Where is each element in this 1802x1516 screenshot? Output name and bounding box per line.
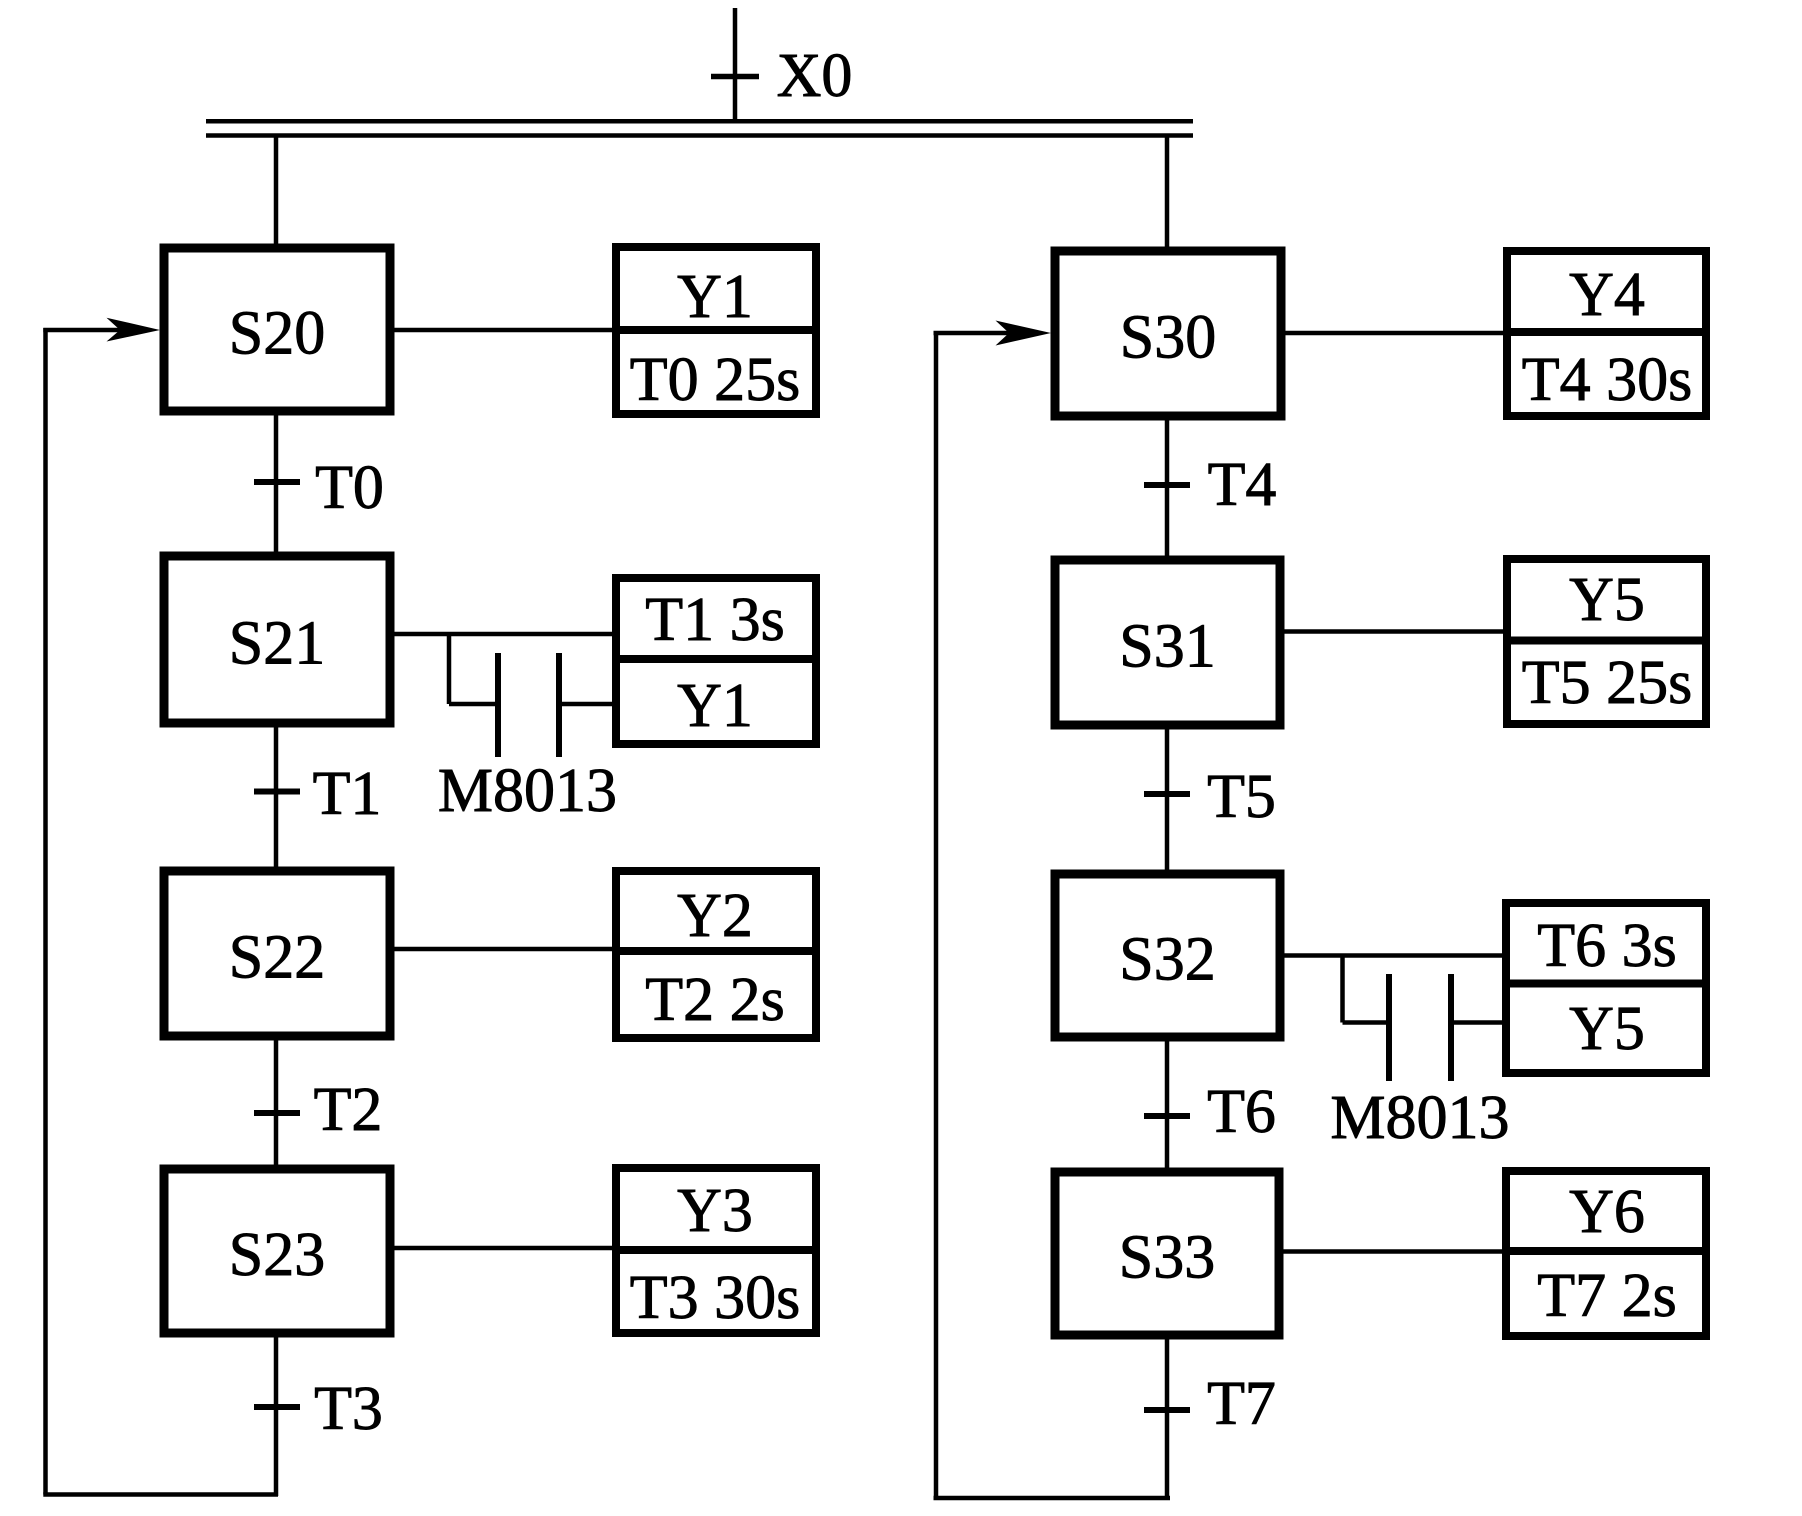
wire S31 to Y5 box (1284, 629, 1505, 634)
svg-text:T5: T5 (1207, 763, 1276, 831)
wire S30 to Y4 box (1285, 331, 1505, 336)
transition T5 (1144, 729, 1276, 870)
wire rail to S30 (1165, 137, 1170, 249)
svg-text:T4 30s: T4 30s (1522, 346, 1693, 414)
transition T2 (254, 1040, 382, 1165)
action box T6 3s / Y5 (1502, 903, 1710, 1073)
svg-text:M8013: M8013 (1330, 1084, 1509, 1152)
svg-text:T6 3s: T6 3s (1537, 912, 1677, 980)
svg-text:T3: T3 (314, 1375, 383, 1443)
svg-text:S22: S22 (229, 924, 325, 992)
power rail (double line) (206, 121, 1193, 135)
loop wire left (T3 back to S20) (43, 318, 278, 1495)
svg-text:S32: S32 (1119, 926, 1215, 994)
transition T1 (254, 727, 381, 867)
wire S23 to Y3 box (394, 1246, 614, 1251)
wire S22 to Y2 box (394, 947, 614, 952)
state box S22 (164, 871, 390, 1036)
loop wire right (T7 back to S30) (934, 321, 1171, 1499)
svg-text:S21: S21 (229, 610, 325, 678)
svg-text:Y5: Y5 (1569, 995, 1645, 1063)
transition T3 (254, 1337, 383, 1496)
wire S33 to Y6 box (1283, 1249, 1504, 1254)
svg-text:X0: X0 (777, 42, 853, 110)
svg-text:S23: S23 (229, 1221, 325, 1289)
svg-text:Y5: Y5 (1569, 566, 1645, 634)
action box Y4 / T4 30s (1503, 251, 1710, 416)
contact M8013 (left) (438, 634, 617, 825)
contact M8013 (right) (1330, 956, 1509, 1153)
svg-text:T7 2s: T7 2s (1537, 1262, 1677, 1330)
action box T1 3s / Y1 (612, 578, 820, 744)
action box Y5 / T5 25s (1503, 559, 1710, 724)
svg-text:T1 3s: T1 3s (645, 586, 785, 654)
wire rail to S20 (274, 137, 279, 246)
state box S30 (1055, 251, 1281, 416)
svg-text:M8013: M8013 (438, 757, 617, 825)
contact X0 (711, 8, 852, 121)
svg-text:T0: T0 (315, 454, 384, 522)
svg-text:T1: T1 (313, 760, 382, 828)
state box S20 (164, 248, 390, 411)
svg-text:Y1: Y1 (677, 672, 753, 740)
wire S21 to T1 box (394, 632, 614, 637)
action box Y2 / T2 2s (612, 871, 820, 1038)
state box S31 (1055, 560, 1280, 725)
action box Y3 / T3 30s (612, 1168, 820, 1333)
svg-text:T3 30s: T3 30s (630, 1264, 801, 1332)
svg-text:T5 25s: T5 25s (1522, 649, 1693, 717)
svg-text:S20: S20 (229, 300, 325, 368)
svg-text:Y4: Y4 (1569, 261, 1645, 329)
state box S21 (164, 556, 390, 723)
svg-text:S33: S33 (1119, 1224, 1215, 1292)
wire S32 to T6 box (1284, 953, 1504, 958)
svg-text:Y1: Y1 (677, 263, 753, 331)
svg-text:T6: T6 (1207, 1078, 1276, 1146)
svg-text:T2: T2 (314, 1076, 383, 1144)
wire S20 to Y1 box (394, 328, 614, 333)
svg-text:S31: S31 (1119, 613, 1215, 681)
transition T0 (254, 415, 384, 552)
state box S33 (1055, 1172, 1279, 1335)
action box Y6 / T7 2s (1502, 1171, 1710, 1336)
action box Y1 / T0 25s (612, 247, 820, 414)
svg-text:Y3: Y3 (677, 1177, 753, 1245)
svg-text:Y6: Y6 (1569, 1178, 1645, 1246)
transition T7 (1144, 1339, 1276, 1500)
svg-text:T2 2s: T2 2s (645, 966, 785, 1034)
transition T4 (1144, 420, 1276, 556)
svg-text:Y2: Y2 (677, 882, 753, 950)
svg-text:T0 25s: T0 25s (630, 346, 801, 414)
svg-text:T4: T4 (1208, 451, 1277, 519)
state box S32 (1055, 874, 1280, 1037)
svg-text:T7: T7 (1207, 1370, 1276, 1438)
state box S23 (164, 1169, 390, 1333)
svg-text:S30: S30 (1120, 304, 1216, 372)
transition T6 (1144, 1041, 1276, 1168)
